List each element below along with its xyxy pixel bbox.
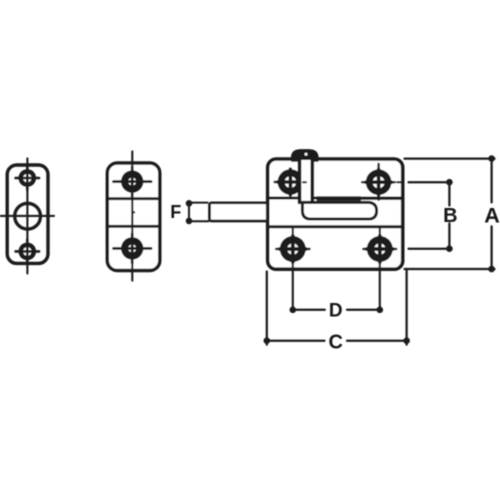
svg-text:A: A xyxy=(484,203,500,227)
svg-text:C: C xyxy=(328,331,342,353)
svg-text:F: F xyxy=(170,202,181,222)
svg-text:B: B xyxy=(443,205,457,227)
svg-text:D: D xyxy=(329,301,343,322)
